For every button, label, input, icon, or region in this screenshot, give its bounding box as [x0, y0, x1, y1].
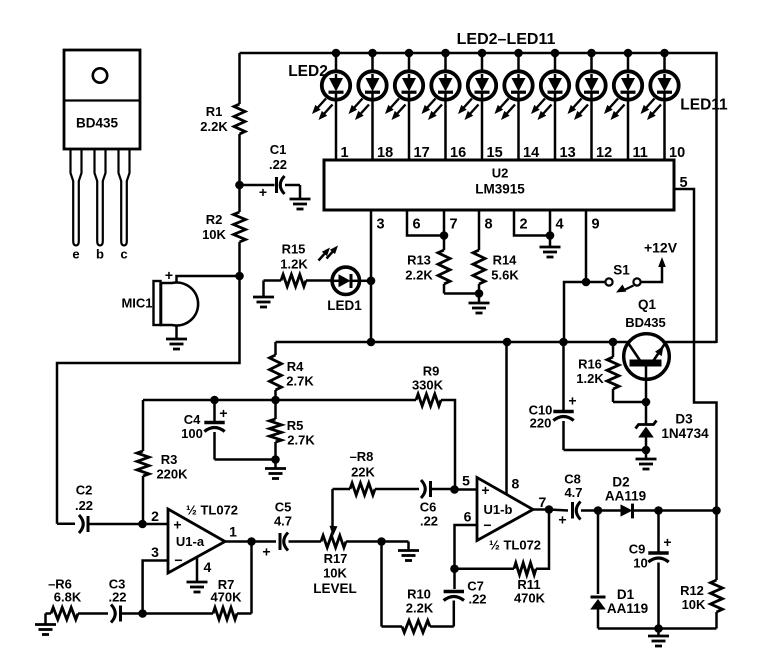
op-amp U1-a: [168, 503, 238, 574]
wire S1 to +12V arrow: [641, 257, 666, 282]
potentiometer R17 LEVEL: [313, 489, 381, 596]
node bottom ground junction: [654, 624, 663, 633]
wire U2 pin9: [586, 210, 600, 282]
svg-text:5.6K: 5.6K: [491, 268, 519, 283]
diode D2 AA119: [598, 475, 659, 519]
node U1-b pin6 feedback junction: [450, 564, 459, 573]
LED4: [385, 49, 423, 160]
svg-text:C4: C4: [184, 412, 201, 427]
svg-text:9: 9: [592, 217, 600, 233]
ground R13 R14: [469, 294, 490, 314]
wire R3 bottom to pin2 node: [142, 476, 145, 524]
svg-text:10K: 10K: [323, 566, 347, 581]
wire U2 pin8: [479, 210, 493, 250]
wire U1-a output pin1: [225, 524, 252, 542]
op-amp U1-b: [477, 478, 541, 553]
label LED2-LED11: [457, 31, 556, 48]
svg-text:+: +: [568, 393, 576, 409]
U2 pin 15 number: [487, 145, 503, 161]
node C4 top: [210, 396, 219, 405]
svg-text:R12: R12: [680, 583, 704, 598]
capacitor C4: [181, 400, 275, 460]
svg-text:2: 2: [151, 508, 159, 524]
capacitor C3: [78, 577, 143, 623]
wire R5 bottom: [274, 442, 277, 460]
transistor Q1 BD435: [624, 297, 670, 379]
capacitor C2: [57, 483, 143, 534]
ground R6: [35, 614, 56, 635]
svg-text:4.7: 4.7: [564, 485, 582, 500]
wire U1-a pin2 input: [143, 508, 169, 524]
wire U2 pin6: [407, 210, 444, 236]
svg-text:R16: R16: [578, 357, 602, 372]
wire MIC1 plus to junction: [177, 276, 240, 283]
svg-text:2.7K: 2.7K: [286, 374, 314, 389]
zener diode D3 1N4734: [636, 402, 710, 450]
svg-text:470K: 470K: [514, 591, 546, 606]
node R12 top junction: [712, 506, 721, 515]
wire U2 pin7: [444, 210, 458, 236]
svg-text:6.8K: 6.8K: [54, 590, 82, 605]
wire MIC node down-left jog to C2: [57, 276, 240, 524]
resistor R14: [473, 250, 519, 294]
wire pin9 jog down to base rail: [564, 282, 586, 342]
svg-text:4: 4: [204, 559, 212, 575]
BD435 leg b: [95, 149, 106, 262]
LED11: [641, 49, 679, 160]
svg-text:+: +: [663, 534, 671, 550]
label +12V: [644, 240, 678, 256]
svg-text:+: +: [481, 482, 489, 498]
svg-text:½ TL072: ½ TL072: [489, 538, 541, 553]
svg-text:22K: 22K: [351, 465, 375, 480]
svg-text:.22: .22: [108, 590, 126, 605]
svg-text:BD435: BD435: [625, 315, 665, 330]
node U1-b output junction: [545, 505, 554, 514]
svg-text:R13: R13: [407, 253, 431, 268]
svg-text:LED1: LED1: [327, 298, 362, 313]
resistor R3: [137, 451, 188, 482]
svg-text:5: 5: [680, 175, 688, 191]
node MIC1 junction: [235, 272, 244, 281]
svg-text:LED2–LED11: LED2–LED11: [457, 31, 556, 48]
node D3 ground junction: [642, 446, 651, 455]
resistor R15: [264, 242, 331, 287]
svg-text:2.2K: 2.2K: [406, 601, 434, 616]
wire Q1 collector to bus: [665, 341, 717, 344]
node U1-b pin5 junction: [450, 485, 459, 494]
U1-a pin4 ground: [187, 558, 212, 593]
U2 pin 13 number: [560, 145, 576, 161]
LED8: [531, 49, 569, 160]
svg-text:4.7: 4.7: [274, 514, 292, 529]
ground MIC1: [166, 325, 187, 349]
svg-text:2.2K: 2.2K: [200, 119, 228, 134]
wire R1 to C1 node: [238, 134, 241, 185]
label LED2: [288, 63, 328, 80]
node R13 R14 ground junction: [475, 289, 484, 298]
svg-text:470K: 470K: [210, 590, 242, 605]
resistor R9: [412, 364, 444, 407]
svg-text:U1-a: U1-a: [176, 534, 205, 549]
svg-text:AA119: AA119: [607, 601, 648, 616]
node Q1 emitter junction: [642, 398, 651, 407]
wire Q1 emitter: [645, 367, 648, 403]
wire U2 pin3: [371, 210, 385, 342]
svg-text:+: +: [165, 267, 173, 283]
svg-text:AA119: AA119: [605, 489, 646, 504]
svg-text:+: +: [173, 517, 181, 533]
svg-text:C5: C5: [275, 500, 292, 515]
svg-text:1N4734: 1N4734: [661, 426, 709, 441]
svg-text:10K: 10K: [202, 227, 226, 242]
node pin2-4 junction: [546, 231, 555, 240]
U2 pin 12 number: [596, 145, 612, 161]
node pin3 base rail junction: [367, 338, 376, 347]
wire C1 node to R2: [238, 185, 241, 212]
svg-text:6: 6: [464, 509, 472, 525]
svg-text:.22: .22: [75, 498, 93, 513]
svg-text:6: 6: [413, 217, 421, 233]
svg-text:1.2K: 1.2K: [576, 371, 604, 386]
svg-text:U2: U2: [492, 166, 509, 181]
wire detector bottom rail: [598, 627, 717, 630]
wire R16 bottom to emitter node: [613, 401, 646, 404]
wire U1-b pin8 supply: [507, 342, 520, 495]
svg-text:7: 7: [450, 217, 458, 233]
wire bias rail: [143, 399, 416, 402]
node C9 top junction: [654, 506, 663, 515]
LED1: [319, 246, 363, 314]
node R17 right junction: [377, 537, 386, 546]
wire U2 pin4: [550, 210, 564, 236]
ground R5: [265, 460, 286, 479]
svg-text:LEVEL: LEVEL: [313, 581, 357, 596]
U2 pin 18 number: [377, 145, 393, 161]
svg-text:D2: D2: [612, 475, 629, 490]
svg-text:3: 3: [151, 544, 159, 560]
resistor R10: [382, 587, 454, 633]
svg-text:.22: .22: [269, 157, 287, 172]
svg-text:+: +: [262, 544, 270, 560]
LED9: [568, 49, 606, 160]
LED2: [312, 49, 350, 160]
wire Q1 base rail: [276, 341, 629, 344]
svg-text:C6: C6: [420, 500, 437, 515]
svg-text:R2: R2: [206, 212, 223, 227]
node U1-b pin8 rail junction: [503, 338, 512, 347]
U2 pin 16 number: [450, 145, 466, 161]
svg-text:–R8: –R8: [350, 449, 374, 464]
switch S1: [605, 263, 640, 293]
node R16 rail junction: [609, 338, 618, 347]
node C10 rail junction: [559, 338, 568, 347]
svg-text:Q1: Q1: [638, 297, 657, 312]
LED6: [458, 49, 496, 160]
svg-text:220: 220: [530, 416, 552, 431]
svg-text:2: 2: [520, 217, 528, 233]
wire R3 top from bias rail: [142, 400, 145, 451]
LED7: [495, 49, 533, 160]
svg-text:8: 8: [512, 476, 520, 492]
svg-text:+: +: [219, 405, 227, 421]
resistor R16: [576, 342, 619, 402]
ground R17: [382, 542, 420, 561]
svg-text:1: 1: [229, 524, 237, 540]
svg-text:10: 10: [633, 556, 647, 571]
svg-text:R17: R17: [324, 551, 348, 566]
svg-text:BD435: BD435: [76, 116, 119, 131]
svg-text:C9: C9: [629, 542, 646, 557]
capacitor C5: [252, 500, 322, 560]
node R4 R5 junction: [271, 396, 280, 405]
svg-text:R14: R14: [493, 253, 518, 268]
svg-text:1.2K: 1.2K: [280, 257, 308, 272]
U2 pin 10 number: [669, 145, 685, 161]
microphone MIC1: [121, 267, 198, 326]
node C1 junction: [235, 181, 244, 190]
BD435 leg e: [71, 149, 82, 262]
wire U2 pin2: [514, 210, 550, 236]
wire bus left drop to R1: [238, 53, 241, 104]
svg-text:R1: R1: [206, 104, 223, 119]
wire R4 to rail: [274, 390, 277, 400]
LED3: [349, 49, 387, 160]
capacitor C7: [444, 569, 487, 627]
capacitor C10: [529, 342, 646, 450]
label LED11: [680, 97, 728, 114]
U2 pin 14 number: [523, 145, 539, 161]
ground D3: [636, 450, 657, 469]
wire R10 to R17 node: [380, 542, 383, 627]
node D1 junction: [594, 506, 603, 515]
svg-text:R4: R4: [287, 359, 304, 374]
capacitor C6: [375, 480, 455, 529]
U2 pin 17 number: [414, 145, 430, 161]
svg-text:½ TL072: ½ TL072: [186, 503, 238, 518]
wire R2 to MIC1 node: [238, 242, 241, 276]
wire pin9 to S1: [586, 281, 606, 284]
capacitor C9: [629, 511, 672, 629]
svg-text:4: 4: [556, 217, 564, 233]
ground U2 pin4: [540, 236, 561, 258]
svg-text:R3: R3: [161, 452, 178, 467]
node pin9 junction: [582, 278, 591, 287]
resistor R7: [143, 577, 252, 620]
node R5 C4 ground junction: [271, 455, 280, 464]
svg-text:C2: C2: [76, 483, 93, 498]
LED10: [604, 49, 642, 160]
U2 pin 11 number: [633, 145, 648, 161]
resistor R1: [200, 104, 245, 134]
resistor R2: [202, 212, 245, 242]
BD435 leg c: [119, 149, 130, 262]
wire D2 node to R12 column: [659, 509, 717, 512]
svg-text:.22: .22: [420, 514, 438, 529]
wire top LED supply bus: [240, 52, 718, 55]
node LED1 pin3 junction: [367, 277, 376, 286]
svg-text:+12V: +12V: [644, 240, 678, 256]
svg-text:S1: S1: [613, 263, 630, 278]
wire R7 feedback up to output: [250, 542, 253, 614]
svg-text:LM3915: LM3915: [475, 182, 525, 197]
node pin6-7 junction: [440, 231, 449, 240]
resistor R13: [405, 236, 479, 294]
svg-text:R15: R15: [282, 242, 306, 257]
svg-text:.22: .22: [468, 592, 486, 607]
wire U1-b output pin7: [533, 494, 549, 510]
wire R4 top from base rail: [274, 342, 277, 355]
svg-text:D1: D1: [617, 587, 635, 602]
resistor R11: [455, 510, 550, 606]
wire U1-b pin5 input: [455, 473, 478, 490]
resistor R12: [680, 511, 722, 629]
svg-text:5: 5: [462, 473, 470, 489]
wire rail to R5: [274, 400, 277, 419]
svg-text:220K: 220K: [156, 467, 188, 482]
wire U1-b pin6 input: [455, 509, 478, 569]
wire right bus drop to Q1 collector: [715, 53, 718, 343]
svg-text:U1-b: U1-b: [484, 502, 513, 517]
svg-text:C1: C1: [270, 142, 287, 157]
resistor R4: [270, 355, 315, 390]
resistor R8: [333, 449, 376, 495]
svg-text:8: 8: [485, 217, 493, 233]
svg-text:10K: 10K: [682, 597, 706, 612]
svg-text:+: +: [259, 184, 267, 200]
svg-text:R5: R5: [287, 418, 304, 433]
ground R15: [253, 281, 274, 308]
wire U1-a pin3 input: [143, 544, 168, 614]
svg-text:−: −: [483, 517, 491, 533]
resistor R5: [270, 418, 316, 448]
svg-text:100: 100: [181, 426, 203, 441]
svg-text:b: b: [96, 247, 104, 262]
svg-text:2.7K: 2.7K: [287, 433, 315, 448]
svg-text:D3: D3: [675, 412, 693, 427]
svg-text:+: +: [558, 512, 566, 528]
svg-text:c: c: [120, 247, 127, 262]
wire LED1 to pin3 column: [358, 280, 371, 283]
capacitor C1: [240, 142, 311, 209]
svg-text:2.2K: 2.2K: [405, 268, 433, 283]
svg-text:LED11: LED11: [680, 97, 728, 114]
svg-text:R10: R10: [407, 587, 431, 602]
resistor R6: [46, 577, 82, 620]
node U1-a pin2 junction: [138, 520, 147, 529]
ground output filter: [648, 629, 669, 647]
svg-text:MIC1: MIC1: [121, 296, 152, 311]
LED5: [422, 49, 460, 160]
wire U2 pin5 route: [674, 175, 717, 511]
svg-text:LED2: LED2: [288, 63, 328, 80]
svg-text:−: −: [174, 552, 182, 568]
op-amp U2 LM3915 bargraph IC: [324, 160, 674, 210]
svg-text:R9: R9: [423, 364, 440, 379]
diode D1 AA119: [590, 511, 648, 629]
svg-text:3: 3: [377, 217, 385, 233]
capacitor C8: [549, 472, 598, 528]
svg-text:e: e: [72, 247, 79, 262]
svg-text:330K: 330K: [412, 378, 444, 393]
wire R9 right to U1-b pin5 node: [441, 400, 455, 490]
node U1-a pin3 bottom junction: [138, 609, 147, 618]
U2 pin 1 number: [341, 145, 349, 161]
node U1-a output junction: [247, 537, 256, 546]
transistor package BD435 pictorial: [64, 50, 140, 149]
